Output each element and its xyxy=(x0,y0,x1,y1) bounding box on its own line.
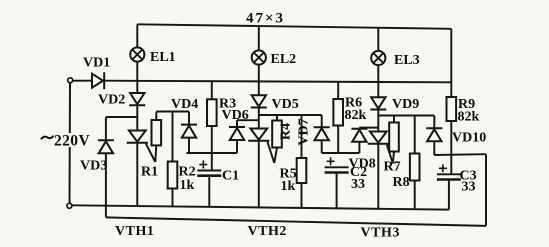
diode VD1 xyxy=(92,72,104,89)
wire VD8 to VTH3 anode xyxy=(359,127,378,129)
wire VD10 anode lead xyxy=(433,141,435,155)
label VD6 xyxy=(222,108,249,123)
label VTH3 xyxy=(361,226,400,241)
wire rail to EL3 xyxy=(377,28,379,51)
diode VD9 xyxy=(370,97,386,109)
diode VD3 xyxy=(98,140,114,153)
wire EL2 to VD5 xyxy=(258,65,260,96)
svg-text:EL2: EL2 xyxy=(271,52,297,67)
wire VD8 cathode lead xyxy=(358,128,360,129)
svg-text:VD3: VD3 xyxy=(80,159,107,174)
svg-text:VD4: VD4 xyxy=(171,97,198,112)
wire R8 bottom lead xyxy=(414,181,416,210)
svg-text:VTH1: VTH1 xyxy=(115,224,154,239)
svg-text:47×3: 47×3 xyxy=(246,11,285,27)
lamp EL1 xyxy=(130,47,144,61)
label R8 xyxy=(393,175,410,190)
wire R9 top lead xyxy=(450,82,452,97)
svg-text:VD8: VD8 xyxy=(349,157,376,172)
wire node A1 horizontal xyxy=(106,116,137,118)
label R3 xyxy=(219,97,236,112)
label R7 xyxy=(384,160,401,175)
label R6 xyxy=(345,96,362,111)
diode VD4 xyxy=(181,125,197,138)
wire W2 horizontal xyxy=(259,114,322,116)
resistor R6 xyxy=(333,99,343,126)
label ~220V xyxy=(40,133,90,150)
wire VD4 anode lead xyxy=(188,138,190,153)
svg-text:1k: 1k xyxy=(281,179,296,194)
label R4 rotated xyxy=(279,123,294,140)
lamp EL2 xyxy=(252,50,266,64)
capacitor C1 xyxy=(197,161,221,176)
label R9 xyxy=(458,97,475,112)
label EL1 xyxy=(150,50,176,65)
diode VD5 xyxy=(251,95,267,107)
diode VD10 xyxy=(426,128,442,141)
label C2 value 33 xyxy=(351,177,365,192)
label VD10 xyxy=(452,131,486,146)
wire node A1 to VD3 xyxy=(105,117,107,140)
label VTH2 xyxy=(248,224,287,239)
label VD3 xyxy=(80,159,107,174)
wire R6 bottom lead xyxy=(337,126,339,154)
label R9 value 82k xyxy=(458,110,480,125)
label C2 xyxy=(350,165,367,180)
resistor R4 xyxy=(272,121,282,148)
thyristor VTH2 xyxy=(248,129,274,164)
terminal upper supply xyxy=(68,78,73,83)
label VD9 xyxy=(392,97,419,112)
wire R4 top lead xyxy=(276,115,278,121)
label VD7 rotated xyxy=(297,118,312,145)
wire VD8 anode lead xyxy=(358,142,360,153)
wire R5 bottom lead xyxy=(301,183,303,208)
label VD8 xyxy=(349,157,376,172)
wire VD4 cathode lead xyxy=(188,112,190,125)
wire W3 horizontal xyxy=(378,115,434,117)
label 47x3 lamp rating xyxy=(246,11,285,27)
capacitor C3 xyxy=(437,164,461,179)
wire rail to EL1 xyxy=(136,24,138,47)
wire R1 bottom lead to gate xyxy=(155,145,156,162)
svg-text:82k: 82k xyxy=(345,108,367,123)
wire R9 bottom to C3 xyxy=(450,121,452,174)
wire EL3 to VD9 xyxy=(377,65,379,97)
svg-text:VTH2: VTH2 xyxy=(248,224,287,239)
label C3 value 33 xyxy=(462,180,476,195)
label VD1 xyxy=(83,56,110,71)
svg-text:R1: R1 xyxy=(141,165,158,180)
wire rail to EL2 xyxy=(258,26,260,50)
label C1 xyxy=(222,169,239,184)
wire W1 horizontal xyxy=(156,111,189,113)
svg-text:VD2: VD2 xyxy=(98,93,125,108)
svg-text:EL1: EL1 xyxy=(150,50,176,65)
label VTH1 xyxy=(115,224,154,239)
wire VD7 anode lead xyxy=(321,140,323,153)
capacitor C2 xyxy=(325,157,349,172)
resistor R5 xyxy=(297,158,307,183)
wire R4 bottom lead to gate xyxy=(274,148,277,164)
wire VD3 anode to lower return xyxy=(105,153,107,217)
label R2 xyxy=(179,165,196,180)
wire R6 top lead xyxy=(337,82,339,99)
label EL2 xyxy=(271,52,297,67)
wire lower return right riser xyxy=(485,154,487,226)
wire node B1 horizontal xyxy=(187,152,238,154)
resistor R9 xyxy=(447,97,457,121)
label VD4 xyxy=(171,97,198,112)
wire R2 bottom lead xyxy=(172,189,174,207)
diode VD6 xyxy=(229,127,245,140)
svg-text:33: 33 xyxy=(351,177,365,192)
svg-text:33: 33 xyxy=(462,180,476,195)
wire main bus xyxy=(105,81,451,83)
svg-text:C1: C1 xyxy=(222,169,239,184)
wire VTH3 cathode to bus xyxy=(377,144,379,209)
wire R3 top lead xyxy=(211,81,213,99)
wire EL1 to VD2 xyxy=(136,62,138,93)
label R6 value 82k xyxy=(345,108,367,123)
svg-text:EL3: EL3 xyxy=(394,53,420,68)
svg-text:1k: 1k xyxy=(180,178,195,193)
svg-text:R8: R8 xyxy=(393,175,410,190)
resistor R7 xyxy=(389,123,399,152)
svg-text:VD10: VD10 xyxy=(452,131,486,146)
wire terminal to VD1 xyxy=(73,80,92,82)
wire VD6 to VTH2 anode xyxy=(237,119,259,121)
wire lower return xyxy=(106,217,486,226)
wire R7 top lead xyxy=(393,116,395,123)
wire VD9 to VTH3 xyxy=(377,110,379,132)
label R1 xyxy=(141,165,158,180)
wire R7 bottom lead to gate xyxy=(393,152,394,164)
svg-text:82k: 82k xyxy=(458,110,480,125)
diode VD2 xyxy=(129,93,145,105)
wire R2 top lead xyxy=(172,112,174,162)
thyristor VTH3 xyxy=(368,132,393,164)
resistor R1 xyxy=(152,120,162,145)
wire VD7 cathode lead xyxy=(321,115,323,127)
wire R5 top lead xyxy=(301,115,303,158)
wire C3 bottom lead xyxy=(448,180,450,210)
wire rail right corner down xyxy=(450,29,452,83)
label R5 value 1k xyxy=(281,179,296,194)
svg-text:VD5: VD5 xyxy=(272,97,299,112)
wire top lamp rail xyxy=(137,24,451,28)
svg-text:VTH3: VTH3 xyxy=(361,226,400,241)
wire VD2 to VTH1 xyxy=(136,105,138,130)
label VD5 xyxy=(272,97,299,112)
wire node B2 horizontal xyxy=(322,152,360,154)
label R5 xyxy=(280,167,297,182)
svg-text:R4: R4 xyxy=(279,123,294,140)
resistor R8 xyxy=(410,154,420,181)
wire C1 bottom lead xyxy=(208,176,210,207)
resistor R3 xyxy=(207,99,217,126)
wire R1 top lead xyxy=(155,112,157,121)
wire VTH2 cathode to bus xyxy=(258,141,260,208)
lamp EL3 xyxy=(371,51,385,65)
wire VTH1 cathode to bus xyxy=(136,143,138,206)
svg-text:VD7: VD7 xyxy=(297,118,312,145)
wire R8 top lead xyxy=(414,116,416,154)
wire VD6 cathode lead xyxy=(236,120,238,127)
wire VD6 anode lead xyxy=(236,140,238,153)
terminal lower supply xyxy=(67,203,72,208)
wire bottom bus xyxy=(72,205,449,209)
wire left supply vertical xyxy=(69,83,72,203)
wire VD5 to VTH2 xyxy=(258,108,260,129)
svg-text:VD9: VD9 xyxy=(392,97,419,112)
label C3 xyxy=(460,169,477,184)
wire VD10 cathode lead xyxy=(433,116,435,129)
wire C2 bottom lead xyxy=(336,173,338,209)
svg-text:220V: 220V xyxy=(54,133,90,150)
label VD2 xyxy=(98,93,125,108)
diode VD8 xyxy=(351,129,367,142)
thyristor VTH1 xyxy=(127,131,156,163)
label R2 value 1k xyxy=(180,178,195,193)
wire node B3 horizontal xyxy=(434,153,486,156)
wire R3 bottom to C1 xyxy=(211,126,213,171)
resistor R2 xyxy=(168,162,178,189)
diode VD7 xyxy=(314,127,330,140)
svg-text:VD1: VD1 xyxy=(83,56,110,71)
svg-text:R7: R7 xyxy=(384,160,401,175)
label EL3 xyxy=(394,53,420,68)
